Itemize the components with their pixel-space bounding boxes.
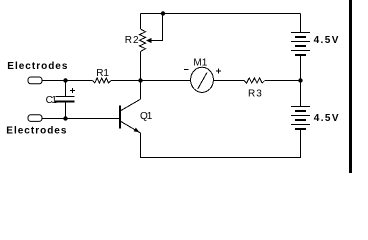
svg-text:Electrodes: Electrodes: [7, 61, 68, 72]
svg-text:R1: R1: [96, 68, 109, 79]
svg-text:M1: M1: [193, 58, 207, 69]
svg-text:R2: R2: [125, 35, 140, 46]
svg-text:4.5V: 4.5V: [314, 35, 340, 46]
svg-text:Electrodes: Electrodes: [6, 126, 67, 137]
svg-text:4.5V: 4.5V: [314, 113, 340, 124]
svg-text:R3: R3: [248, 89, 263, 100]
svg-text:Q1: Q1: [140, 111, 153, 122]
